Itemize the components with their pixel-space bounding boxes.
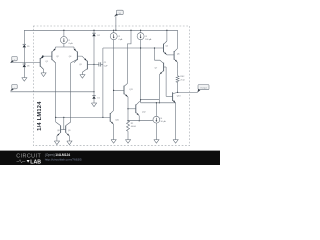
svg-text:Q3: Q3	[79, 64, 82, 66]
svg-text:Q4: Q4	[69, 56, 72, 58]
svg-text:40 kΩ: 40 kΩ	[131, 126, 137, 128]
svg-text:Q1: Q1	[45, 61, 48, 63]
svg-text:R2: R2	[131, 123, 133, 125]
svg-text:I1: I1	[69, 40, 71, 42]
svg-text:1/4 LM124: 1/4 LM124	[37, 101, 43, 131]
svg-text:Q13: Q13	[177, 96, 181, 98]
svg-text:Output: Output	[200, 87, 207, 90]
svg-text:50 µA: 50 µA	[161, 120, 167, 123]
svg-text:100 µA: 100 µA	[145, 38, 152, 41]
svg-text:Q12: Q12	[142, 111, 146, 113]
svg-text:D2: D2	[97, 35, 99, 37]
svg-text:Q10: Q10	[115, 120, 119, 122]
svg-text:D5: D5	[27, 46, 29, 48]
svg-text:I4: I4	[161, 118, 163, 120]
svg-text:25 Ω: 25 Ω	[180, 79, 185, 81]
svg-text:http://circuitlab.com/7663l5: http://circuitlab.com/7663l5	[45, 157, 82, 161]
svg-text:RSC: RSC	[180, 76, 185, 78]
svg-text:Q9: Q9	[68, 130, 71, 132]
svg-text:I3: I3	[145, 36, 147, 38]
svg-text:LAB: LAB	[30, 159, 41, 165]
svg-text:Q8: Q8	[57, 130, 60, 132]
svg-text:Q2: Q2	[56, 56, 59, 58]
svg-text:D1: D1	[97, 97, 99, 99]
svg-text:Q6: Q6	[177, 54, 180, 56]
svg-text:Q11: Q11	[129, 89, 132, 91]
svg-text:D6: D6	[27, 66, 29, 68]
svg-text:C1: C1	[104, 62, 106, 64]
svg-text:Q5: Q5	[165, 46, 168, 48]
svg-text:Q7: Q7	[155, 68, 158, 70]
svg-text:I2: I2	[118, 36, 120, 38]
